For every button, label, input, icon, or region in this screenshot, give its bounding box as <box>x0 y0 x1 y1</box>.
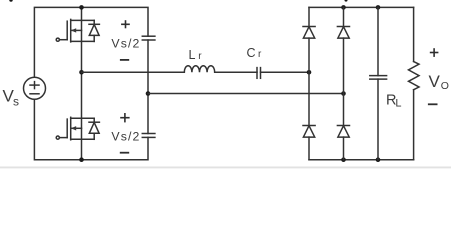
node: filter cap to top rail <box>376 5 381 10</box>
voltage source Vs <box>24 77 46 99</box>
label + of C2 <box>121 114 129 122</box>
label + of C1 <box>122 21 129 28</box>
stray mark top-middle-right (cropped text remnant) <box>345 0 348 2</box>
stray mark top-left (cropped text remnant) <box>9 0 12 2</box>
label - of C2 <box>121 152 129 154</box>
wire: capacitor midpoint to bridge (lower) <box>148 93 344 95</box>
faint page rule line at bottom <box>0 166 451 168</box>
diode D1 (top-left) <box>303 27 315 39</box>
wire: Cr to bridge <box>261 71 310 73</box>
capacitor C1 (top Vs/2) <box>142 36 155 133</box>
svg-text:r: r <box>198 51 202 62</box>
node: leg to bottom rail <box>79 157 84 162</box>
svg-text:C: C <box>247 46 256 60</box>
wire: bridge bottom rail <box>309 159 414 161</box>
inductor Lr <box>184 66 214 73</box>
node: leg to top rail <box>79 5 84 10</box>
svg-text:r: r <box>258 49 262 60</box>
capacitor C2 (bottom Vs/2) <box>142 134 155 138</box>
wire: half-bridge vertical leg <box>81 7 83 159</box>
svg-text:L: L <box>395 97 401 109</box>
node: lower wire to right bridge leg <box>341 91 346 96</box>
label + of Vo <box>431 49 438 56</box>
wire: left loop top rail <box>34 7 148 77</box>
svg-text:Vs/2: Vs/2 <box>111 37 140 51</box>
diode of Q2 (body diode) <box>89 118 99 139</box>
svg-text:L: L <box>189 48 196 62</box>
wire: between Lr and Cr <box>215 71 257 73</box>
svg-text:s: s <box>13 95 19 109</box>
resistor RL <box>409 7 420 159</box>
node: filter cap to bottom rail <box>376 157 381 162</box>
diode D4 (bottom-right) <box>337 126 349 138</box>
node: leg to resonant wire <box>79 70 84 75</box>
svg-text:V: V <box>429 72 441 91</box>
transistor Q2 (bottom MOSFET) <box>56 117 94 140</box>
diode D2 (top-right) <box>337 27 349 39</box>
label - of C1 <box>121 59 129 61</box>
diode D3 (bottom-left) <box>303 126 315 138</box>
wire: bridge top rail <box>309 6 414 8</box>
svg-text:Vs/2: Vs/2 <box>111 130 140 144</box>
wire: left loop bottom rail <box>34 99 148 159</box>
wire: left bridge leg <box>308 7 310 26</box>
node: capacitor midpoint <box>146 91 151 96</box>
wire: right bridge leg <box>343 7 345 26</box>
capacitor Cr <box>257 68 261 79</box>
node: resonant wire to left bridge leg <box>307 70 312 75</box>
wire: resonant link top (with Lr, Cr) <box>82 71 185 73</box>
label - of Vo <box>429 103 437 105</box>
diode of Q1 (body diode) <box>89 20 99 41</box>
filter capacitor <box>370 7 387 159</box>
transistor Q1 (top MOSFET) <box>56 19 94 42</box>
svg-text:O: O <box>441 80 449 92</box>
node: right bridge leg to top rail <box>341 5 346 10</box>
node: right bridge leg to bottom rail <box>341 157 346 162</box>
